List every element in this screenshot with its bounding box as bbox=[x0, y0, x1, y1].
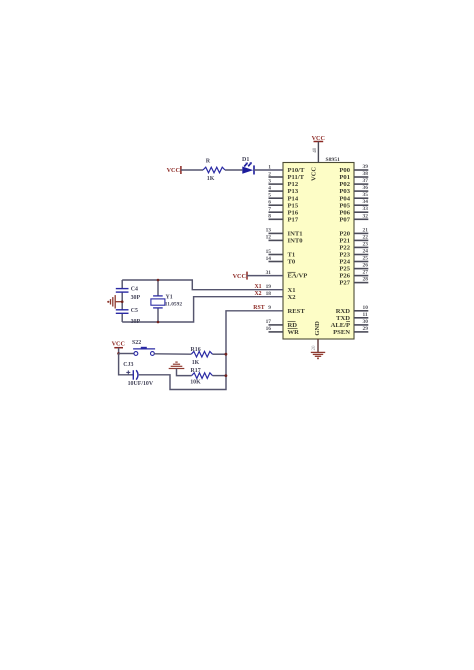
svg-text:P11/T: P11/T bbox=[288, 174, 305, 181]
wire R17 to RST vertical bbox=[213, 375, 227, 377]
right pin numbers bbox=[363, 164, 369, 332]
svg-text:30P: 30P bbox=[131, 295, 141, 301]
svg-text:22: 22 bbox=[363, 234, 369, 240]
svg-text:INT1: INT1 bbox=[288, 231, 303, 238]
svg-text:R17: R17 bbox=[191, 368, 201, 374]
svg-text:2: 2 bbox=[268, 171, 271, 177]
svg-text:P20: P20 bbox=[339, 231, 350, 238]
net label X1 bbox=[255, 284, 262, 290]
crystal Y1 value label 11.0592 bbox=[165, 302, 183, 308]
svg-text:CJ3: CJ3 bbox=[123, 362, 133, 368]
svg-text:34: 34 bbox=[363, 199, 369, 205]
svg-text:15: 15 bbox=[266, 249, 272, 255]
wire crystal loop top (to X1) bbox=[122, 280, 283, 290]
svg-text:P14: P14 bbox=[288, 195, 299, 202]
svg-text:PSEN: PSEN bbox=[333, 329, 350, 336]
IC U1 part name label S8951 bbox=[326, 157, 341, 163]
capacitor CJ3 polarity plus sign bbox=[126, 370, 130, 374]
junction R17/RST bbox=[225, 374, 228, 377]
power VCC symbol (top-left net) bbox=[167, 166, 181, 174]
svg-text:VCC: VCC bbox=[167, 167, 180, 174]
junction crystal top bbox=[157, 279, 160, 282]
svg-text:ALE/P: ALE/P bbox=[331, 322, 350, 329]
svg-text:P02: P02 bbox=[339, 181, 350, 188]
junction C4/C5/ground bbox=[121, 300, 124, 303]
crystal Y1 (11.0592) bbox=[151, 296, 165, 308]
svg-text:P16: P16 bbox=[288, 209, 299, 216]
resistor R17 (10K) bbox=[192, 373, 213, 379]
svg-text:30: 30 bbox=[363, 319, 369, 325]
power VCC symbol (reset branch) bbox=[112, 340, 125, 353]
capacitor CJ3 designator label bbox=[123, 362, 133, 368]
svg-text:R16: R16 bbox=[191, 347, 201, 353]
IC U1 rotated GND power pin label bbox=[314, 321, 321, 336]
svg-text:INT0: INT0 bbox=[288, 238, 304, 245]
IC U1 right pin name labels bbox=[331, 167, 351, 336]
svg-text:RXD: RXD bbox=[336, 308, 351, 315]
svg-text:REST: REST bbox=[288, 308, 306, 315]
diode D1 designator label bbox=[242, 157, 249, 163]
svg-text:X2: X2 bbox=[288, 294, 297, 301]
pin number 40 (rotated) bbox=[313, 147, 318, 153]
svg-text:39: 39 bbox=[363, 164, 369, 170]
capacitor C4 (30P) bbox=[116, 289, 129, 293]
svg-text:23: 23 bbox=[363, 241, 369, 247]
wire IC pin 20 to ground bbox=[317, 339, 319, 352]
svg-text:P01: P01 bbox=[339, 174, 350, 181]
svg-text:38: 38 bbox=[363, 171, 369, 177]
wire crystal loop bottom (to X2) bbox=[122, 297, 283, 322]
resistor R value label 1K bbox=[207, 176, 215, 182]
svg-text:28: 28 bbox=[363, 277, 369, 283]
net label X2 bbox=[255, 291, 262, 297]
svg-text:VCC: VCC bbox=[311, 167, 318, 181]
wire ground to resistor R17 bbox=[177, 369, 192, 376]
svg-text:20: 20 bbox=[312, 345, 317, 351]
pin number 20 (rotated, faint) bbox=[312, 345, 317, 351]
IC U1 overline for ALE/P pin label bbox=[346, 321, 350, 323]
svg-text:P06: P06 bbox=[339, 209, 350, 216]
svg-text:27: 27 bbox=[363, 270, 369, 276]
junction VCC/button/capacitor bbox=[117, 352, 120, 355]
svg-text:TXD: TXD bbox=[336, 315, 350, 322]
svg-text:10UF/10V: 10UF/10V bbox=[128, 381, 154, 387]
svg-text:25: 25 bbox=[363, 256, 369, 262]
svg-text:C5: C5 bbox=[131, 308, 138, 314]
wire VCC junction to button S22 bbox=[119, 353, 134, 355]
svg-text:32: 32 bbox=[363, 213, 369, 219]
svg-text:RD: RD bbox=[288, 322, 298, 329]
IC U1 left pin name labels bbox=[288, 167, 308, 336]
svg-text:R: R bbox=[206, 158, 211, 164]
svg-text:37: 37 bbox=[363, 178, 369, 184]
resistor R designator label bbox=[206, 158, 211, 164]
svg-text:S8951: S8951 bbox=[326, 157, 341, 163]
junction crystal bottom bbox=[157, 321, 160, 324]
svg-text:P00: P00 bbox=[339, 167, 350, 174]
svg-text:1K: 1K bbox=[207, 176, 215, 182]
resistor R16 (1K) bbox=[191, 351, 212, 357]
svg-text:T1: T1 bbox=[288, 252, 296, 259]
capacitor C5 (30P) bbox=[116, 310, 129, 314]
svg-text:EA/VP: EA/VP bbox=[288, 273, 308, 280]
svg-text:29: 29 bbox=[363, 326, 369, 332]
wire button S22 to resistor R16 bbox=[154, 353, 191, 355]
resistor R16 value label 1K bbox=[192, 360, 200, 366]
svg-text:24: 24 bbox=[363, 249, 369, 255]
wire R16 to RST vertical bbox=[213, 353, 227, 355]
svg-text:33: 33 bbox=[363, 206, 369, 212]
svg-text:11: 11 bbox=[363, 312, 368, 318]
svg-text:6: 6 bbox=[268, 200, 271, 206]
wire crystal Y1 vertical bbox=[157, 280, 159, 322]
junction R16/RST bbox=[225, 353, 228, 356]
op IC U1 (S8951 microcontroller) body bbox=[283, 163, 354, 340]
diode D1 (LED) bbox=[242, 162, 254, 174]
svg-text:P15: P15 bbox=[288, 202, 299, 209]
svg-text:16: 16 bbox=[266, 326, 272, 332]
svg-text:P12: P12 bbox=[288, 181, 299, 188]
svg-text:3: 3 bbox=[268, 178, 271, 184]
svg-text:P24: P24 bbox=[339, 259, 350, 266]
svg-text:P21: P21 bbox=[339, 238, 350, 245]
svg-text:10: 10 bbox=[363, 305, 369, 311]
power VCC symbol at IC pin 40 (top) bbox=[312, 135, 325, 142]
wire VCC to resistor R bbox=[181, 169, 203, 171]
resistor R (1K) bbox=[203, 167, 225, 173]
svg-text:P26: P26 bbox=[339, 273, 350, 280]
capacitor CJ3 value label 10UF/10V bbox=[128, 381, 154, 387]
pushbutton S22 bbox=[133, 347, 155, 356]
pushbutton S22 designator label bbox=[132, 340, 141, 346]
wire left branch through C4/C5 bbox=[121, 280, 123, 322]
svg-text:8: 8 bbox=[268, 214, 271, 220]
svg-text:P13: P13 bbox=[288, 188, 299, 195]
wire VCC junction down to capacitor CJ3 bbox=[119, 354, 134, 375]
ground symbol below IC bbox=[311, 352, 325, 356]
wire VCC to IC pin 31 bbox=[247, 275, 283, 277]
left pin numbers bbox=[266, 164, 272, 332]
net label RST bbox=[253, 305, 264, 311]
svg-text:T0: T0 bbox=[288, 259, 296, 266]
IC U1 rotated VCC power pin label bbox=[311, 167, 318, 181]
svg-text:P22: P22 bbox=[339, 245, 350, 252]
wire resistor R to diode D1 bbox=[225, 169, 242, 171]
crystal Y1 designator label bbox=[166, 295, 173, 301]
svg-text:VCC: VCC bbox=[233, 273, 246, 280]
svg-text:VCC: VCC bbox=[112, 340, 125, 347]
svg-text:30P: 30P bbox=[131, 319, 141, 325]
resistor R17 value label 10K bbox=[190, 380, 201, 386]
svg-text:RST: RST bbox=[253, 305, 264, 311]
svg-text:7: 7 bbox=[268, 207, 271, 213]
svg-text:GND: GND bbox=[314, 321, 321, 336]
svg-text:26: 26 bbox=[363, 263, 369, 269]
svg-text:P07: P07 bbox=[339, 216, 350, 223]
wire VCC to IC pin 40 bbox=[317, 142, 319, 163]
svg-text:Y1: Y1 bbox=[166, 295, 173, 301]
wire diode D1 to IC pin 1 bbox=[254, 169, 283, 171]
wire RST from IC pin 9 down to reset network bbox=[139, 311, 283, 390]
svg-text:21: 21 bbox=[363, 227, 369, 233]
IC left pin stubs (pins 2-8,13,12,15,14,17,16) bbox=[269, 177, 284, 332]
svg-text:P10/T: P10/T bbox=[288, 167, 305, 174]
IC U1 overlines for EA, RD, WR bbox=[288, 272, 298, 328]
svg-text:5: 5 bbox=[268, 193, 271, 199]
svg-text:12: 12 bbox=[266, 235, 272, 241]
capacitor C5 value label 30P bbox=[131, 319, 141, 325]
svg-text:P25: P25 bbox=[339, 266, 350, 273]
svg-text:35: 35 bbox=[363, 192, 369, 198]
svg-text:P27: P27 bbox=[339, 280, 350, 287]
svg-text:11.0592: 11.0592 bbox=[165, 302, 183, 308]
svg-text:P04: P04 bbox=[339, 195, 350, 202]
svg-text:C4: C4 bbox=[131, 287, 138, 293]
svg-text:10K: 10K bbox=[190, 380, 201, 386]
svg-text:4: 4 bbox=[268, 185, 271, 191]
electrolytic capacitor CJ3 (10UF/10V) bbox=[133, 370, 138, 380]
resistor R17 designator label bbox=[191, 368, 201, 374]
svg-text:X1: X1 bbox=[255, 284, 262, 290]
ground symbol left of C4/C5 bbox=[111, 295, 123, 308]
svg-text:P17: P17 bbox=[288, 216, 299, 223]
svg-text:P05: P05 bbox=[339, 202, 350, 209]
power VCC symbol at EA/VP pin 31 bbox=[233, 272, 247, 280]
svg-text:17: 17 bbox=[266, 319, 272, 325]
svg-text:14: 14 bbox=[266, 256, 272, 262]
svg-text:P23: P23 bbox=[339, 252, 350, 259]
svg-text:36: 36 bbox=[363, 185, 369, 191]
capacitor C5 designator label bbox=[131, 308, 138, 314]
svg-text:X2: X2 bbox=[255, 291, 262, 297]
svg-text:WR: WR bbox=[288, 329, 300, 336]
capacitor C4 designator label bbox=[131, 287, 138, 293]
svg-text:1K: 1K bbox=[192, 360, 200, 366]
resistor R16 designator label bbox=[191, 347, 201, 353]
svg-text:P03: P03 bbox=[339, 188, 350, 195]
ground symbol above R17 bbox=[169, 362, 185, 368]
svg-text:40: 40 bbox=[313, 147, 318, 153]
svg-text:S22: S22 bbox=[132, 340, 141, 346]
svg-text:13: 13 bbox=[266, 228, 272, 234]
svg-text:X1: X1 bbox=[288, 287, 296, 294]
capacitor C4 value label 30P bbox=[131, 295, 141, 301]
IC right pin stubs (P00-P07,P20-P27,RXD,TXD,ALE,PSEN) bbox=[354, 170, 368, 332]
svg-text:D1: D1 bbox=[242, 157, 249, 163]
